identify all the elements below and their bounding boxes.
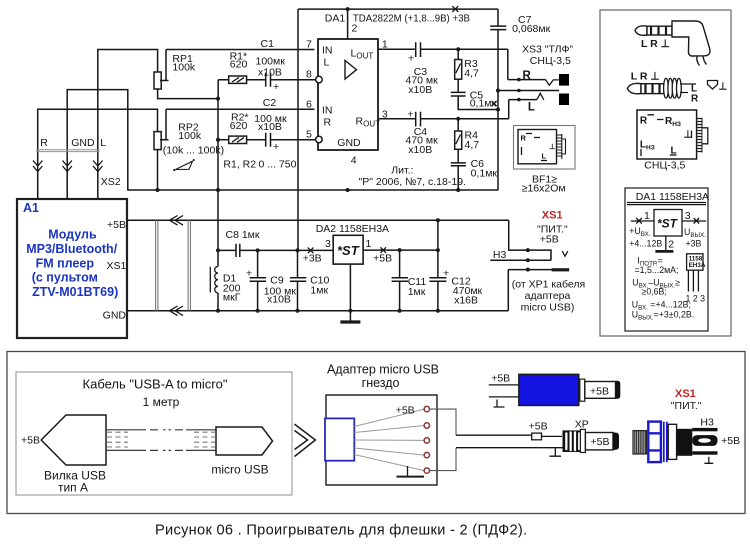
svg-text:гнездо: гнездо (362, 376, 400, 390)
svg-text:+5В: +5В (721, 435, 740, 447)
svg-text:0,1мк: 0,1мк (470, 98, 497, 110)
svg-text:GND: GND (71, 137, 95, 149)
svg-text:GND: GND (337, 137, 361, 149)
svg-text:L R ⊥: L R ⊥ (641, 38, 670, 50)
svg-text:3: 3 (325, 238, 331, 250)
svg-text:620: 620 (230, 120, 248, 132)
svg-text:XS2: XS2 (101, 176, 121, 188)
svg-text:2: 2 (352, 23, 358, 35)
svg-text:х10В: х10В (258, 67, 282, 79)
svg-text:(10k ... 100k): (10k ... 100k) (163, 145, 224, 157)
svg-text:XS1: XS1 (675, 388, 696, 400)
svg-text:СНЦ-3,5: СНЦ-3,5 (644, 159, 685, 171)
svg-text:мкГ: мкГ (223, 291, 241, 303)
svg-text:(с пультом: (с пультом (32, 271, 98, 285)
svg-text:1 метр: 1 метр (143, 395, 180, 409)
svg-text:IN: IN (322, 45, 333, 57)
svg-text:+: + (246, 267, 252, 279)
svg-text:Н3: Н3 (493, 249, 507, 261)
svg-text:х10В: х10В (258, 121, 282, 133)
svg-text:Лит.:: Лит.: (391, 164, 413, 176)
svg-text:ZTV-M01BT69): ZTV-M01BT69) (32, 285, 118, 299)
svg-text:XS1: XS1 (542, 209, 563, 221)
svg-text:+5В: +5В (540, 234, 559, 246)
svg-text:7: 7 (306, 39, 312, 51)
svg-text:GND: GND (103, 310, 127, 322)
svg-text:ЕН3А: ЕН3А (689, 262, 706, 269)
svg-text:х16В: х16В (454, 294, 478, 306)
svg-text:3: 3 (685, 210, 691, 222)
svg-text:1: 1 (382, 39, 388, 51)
svg-text:Рисунок 06 . Проигрыватель для: Рисунок 06 . Проигрыватель для флешки - … (155, 523, 527, 539)
svg-text:+4...12В: +4...12В (629, 239, 662, 249)
svg-text:L: L (528, 102, 535, 114)
svg-text:"ПИТ.": "ПИТ." (671, 400, 702, 412)
svg-text:R1, R2: R1, R2 (223, 159, 256, 171)
svg-text:+5В: +5В (590, 385, 609, 397)
svg-text:+: + (273, 141, 279, 153)
svg-text:⊥: ⊥ (549, 142, 556, 151)
svg-text:0,068мк: 0,068мк (512, 23, 550, 35)
svg-text:СНЦ-3,5: СНЦ-3,5 (530, 55, 571, 67)
svg-text:4,7: 4,7 (464, 67, 479, 79)
svg-text:L: L (542, 152, 547, 161)
svg-text:DA1: DA1 (325, 13, 346, 25)
svg-text:+: + (408, 53, 414, 65)
svg-text:≥16х2Ом: ≥16х2Ом (522, 183, 566, 195)
svg-text:DA2 1158ЕН3А: DA2 1158ЕН3А (316, 223, 389, 235)
svg-text:0 ... 750: 0 ... 750 (259, 159, 297, 171)
svg-text:х10В: х10В (408, 144, 432, 156)
svg-text:micro USB): micro USB) (521, 302, 575, 314)
svg-text:Модуль: Модуль (48, 228, 97, 242)
svg-text:A1: A1 (23, 201, 39, 215)
svg-text:+5В: +5В (21, 435, 40, 447)
svg-text:4,7: 4,7 (465, 139, 480, 151)
svg-text:C8 1мк: C8 1мк (226, 229, 260, 241)
svg-text:(от ХР1 кабеля: (от ХР1 кабеля (512, 279, 585, 291)
svg-text:1мк: 1мк (310, 284, 328, 296)
svg-text:100k: 100k (178, 130, 202, 142)
svg-text:1мк: 1мк (408, 286, 426, 298)
svg-text:⊥: ⊥ (719, 82, 728, 93)
svg-text:+5В: +5В (373, 253, 392, 265)
svg-text:R: R (40, 137, 48, 149)
svg-text:R: R (324, 117, 332, 129)
svg-text:4: 4 (351, 155, 357, 167)
svg-text:IN: IN (322, 105, 333, 117)
svg-text:+5В: +5В (591, 436, 610, 448)
svg-text:+3В: +3В (686, 239, 702, 249)
svg-text:Н3: Н3 (700, 417, 714, 429)
svg-text:х10В: х10В (267, 294, 291, 306)
svg-text:+: + (273, 81, 279, 93)
svg-text:2: 2 (668, 239, 674, 251)
svg-text:TDA2822M (+1,8...9В) +3В: TDA2822M (+1,8...9В) +3В (353, 13, 470, 25)
svg-text:0,1мк: 0,1мк (471, 168, 498, 180)
svg-text:х10В: х10В (408, 84, 432, 96)
svg-text:XS3 "ТЛФ": XS3 "ТЛФ" (522, 44, 573, 56)
svg-text:MP3/Bluetooth/: MP3/Bluetooth/ (26, 242, 117, 256)
svg-text:R: R (691, 94, 699, 105)
svg-text:Кабель "USB-A to micro": Кабель "USB-A to micro" (83, 377, 228, 392)
svg-text:тип А: тип А (58, 481, 88, 495)
svg-text:L: L (100, 137, 106, 149)
svg-text:6: 6 (306, 99, 312, 111)
svg-text:1: 1 (644, 210, 650, 222)
svg-text:620: 620 (230, 59, 248, 71)
svg-text:+5В: +5В (107, 219, 126, 231)
svg-text:L R ⊥: L R ⊥ (631, 71, 660, 83)
svg-text:C2: C2 (263, 97, 277, 109)
svg-text:R: R (640, 115, 648, 126)
svg-text:DA1 1158ЕН3А: DA1 1158ЕН3А (636, 191, 709, 203)
svg-text:=1,5...2мА;: =1,5...2мА; (635, 265, 679, 275)
svg-text:5: 5 (306, 129, 312, 141)
svg-text:3: 3 (382, 108, 388, 120)
svg-text:FM плеер: FM плеер (36, 256, 95, 270)
svg-text:100k: 100k (172, 62, 196, 74)
svg-text:C1: C1 (261, 38, 275, 50)
svg-text:+: + (443, 267, 449, 279)
svg-text:+5В: +5В (529, 421, 548, 433)
svg-text:+: + (408, 108, 414, 120)
svg-text:+5В: +5В (491, 372, 510, 384)
svg-text:*ST: *ST (657, 217, 679, 231)
svg-text:R: R (523, 70, 532, 82)
svg-text:+5В: +5В (396, 404, 415, 416)
svg-text:XS1: XS1 (107, 260, 127, 272)
svg-text:1: 1 (366, 238, 372, 250)
svg-text:micro USB: micro USB (211, 463, 268, 477)
svg-text:*ST: *ST (337, 243, 360, 258)
svg-text:8: 8 (306, 69, 312, 81)
svg-text:R: R (521, 134, 527, 143)
svg-text:Адаптер micro USB: Адаптер micro USB (327, 363, 439, 377)
svg-text:адаптера: адаптера (525, 290, 571, 302)
svg-text:"Р" 2006, №7, с.18-19.: "Р" 2006, №7, с.18-19. (359, 176, 466, 188)
svg-text:+3В: +3В (303, 253, 322, 265)
svg-text:≥0,6В;: ≥0,6В; (642, 287, 667, 297)
svg-text:L: L (324, 57, 330, 69)
